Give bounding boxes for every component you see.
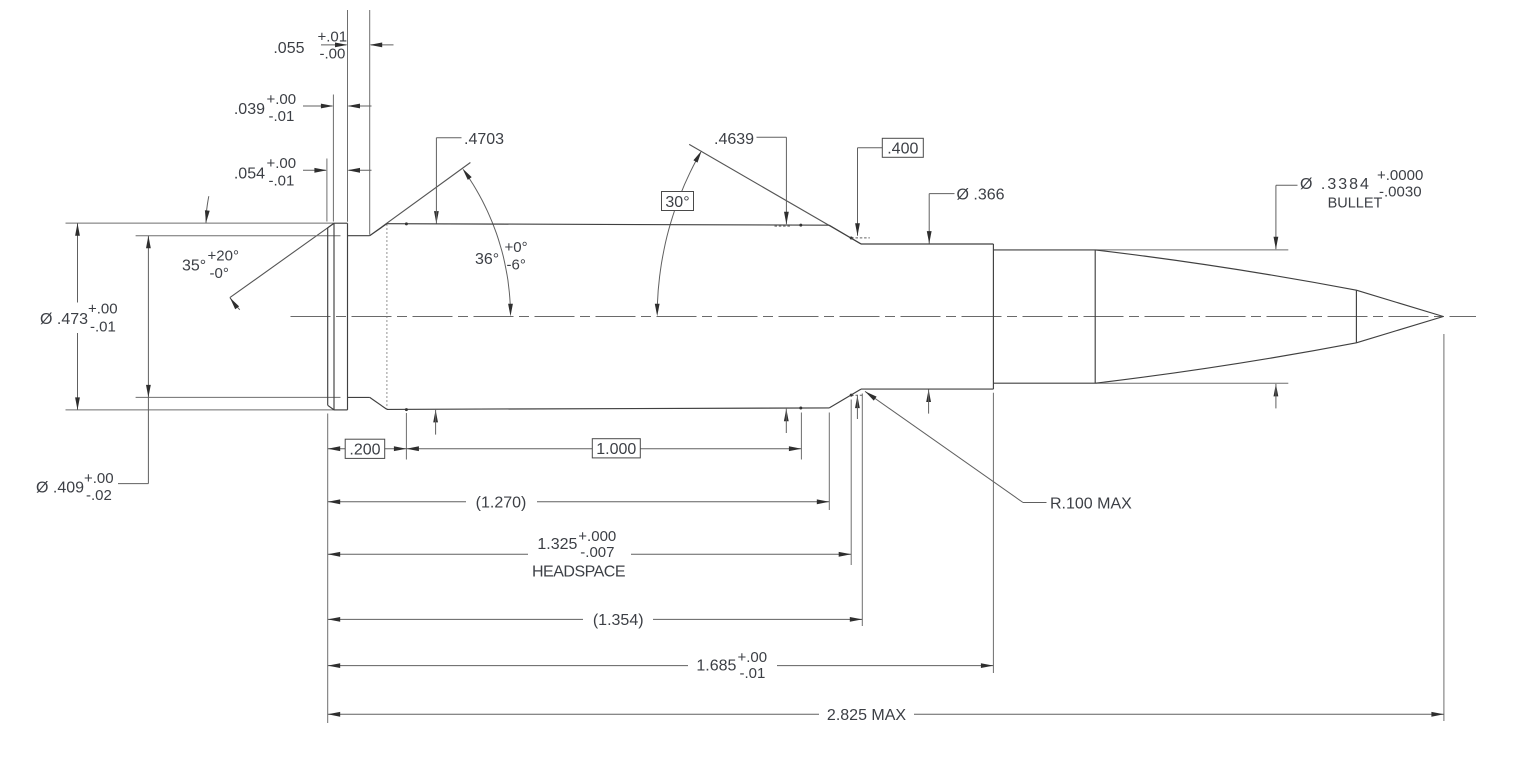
dim line 1.325 headspace — [328, 553, 852, 555]
svg-text:1.325: 1.325 — [537, 536, 577, 553]
dim .200 arrow right — [394, 446, 407, 451]
dot 1.000 point top — [799, 224, 802, 227]
stem .400 vertical — [857, 148, 859, 236]
dim line 1.000 — [406, 448, 801, 450]
leader R.100 MAX horizontal — [1023, 502, 1047, 504]
35 deg arc arrow upper — [205, 210, 210, 223]
extension line rim bottom (dia .473 lower) — [66, 409, 335, 411]
leader dia .3384 horizontal — [1276, 184, 1298, 186]
arrow .4639 bottom up — [784, 409, 789, 422]
svg-text:30°: 30° — [665, 194, 689, 211]
case body top edge — [387, 224, 829, 226]
dim .039 tail right — [349, 105, 372, 107]
dim line (1.354) — [328, 618, 863, 620]
svg-text:.4703: .4703 — [464, 131, 504, 148]
rim top edge — [334, 222, 348, 224]
30 deg shoulder construction line extended — [689, 144, 861, 244]
bullet tip cone lower — [1356, 317, 1443, 343]
case body bottom edge — [387, 408, 829, 410]
dim 1.325 arrow left — [328, 552, 341, 557]
35 deg arc arrow lower — [230, 298, 239, 310]
shoulder top 30deg — [829, 225, 861, 244]
extension line bullet tip down — [1443, 334, 1445, 721]
dot .200 point bottom — [405, 408, 408, 411]
tick .400 level upper — [851, 237, 870, 239]
neck top edge — [861, 243, 993, 245]
svg-text:.4639: .4639 — [714, 131, 754, 148]
svg-text:Ø .473: Ø .473 — [40, 311, 88, 328]
dot .200 point top — [405, 222, 408, 225]
dim .039 arrow left — [321, 104, 334, 109]
svg-text:+.00: +.00 — [84, 470, 114, 487]
leader .4639 horizontal — [757, 136, 787, 138]
svg-text:-.0030: -.0030 — [1379, 184, 1422, 201]
extension line groove top (dia .409 upper) — [136, 235, 341, 237]
dim .055 arrow left — [335, 43, 348, 48]
dim .054 arrow left — [314, 168, 327, 173]
svg-text:+0°: +0° — [505, 239, 528, 256]
dim (1.270) arrow right — [817, 499, 830, 504]
35 deg rim bevel construction line — [230, 223, 334, 297]
svg-text:-.00: -.00 — [320, 46, 346, 63]
svg-text:+.01: +.01 — [318, 29, 348, 46]
bullet ogive lower — [1095, 343, 1356, 383]
dim line .200 — [328, 448, 407, 450]
leader .4703 horizontal — [436, 137, 461, 139]
text knockout (1.354) — [583, 609, 653, 631]
stem .4703 down-arrow — [435, 211, 437, 224]
svg-text:(1.270): (1.270) — [476, 495, 527, 512]
36 deg arc arrow upper — [462, 168, 471, 180]
svg-text:36°: 36° — [475, 251, 499, 268]
dim .054 tail right — [349, 169, 372, 171]
arrow .4703 down — [434, 211, 439, 224]
dim .055 tail right — [371, 44, 394, 46]
text knockout (1.270) — [466, 492, 537, 512]
30 deg arc arrow upper — [693, 151, 701, 163]
dim 2.825 arrow right — [1431, 712, 1444, 717]
dim .054 leader left — [303, 169, 326, 171]
dim .055 arrow right — [370, 43, 383, 48]
dim 1.685 arrow right — [981, 663, 994, 668]
boxed dim 1.000 — [592, 439, 640, 458]
dia .473 arrow down — [75, 397, 80, 410]
svg-text:-.01: -.01 — [269, 108, 295, 125]
dim line dia .409 vertical — [147, 236, 149, 484]
dim 2.825 arrow left — [328, 712, 341, 717]
leader dia .366 horizontal — [929, 193, 954, 195]
extension line case mouth down — [992, 393, 994, 673]
svg-text:BULLET: BULLET — [1328, 196, 1383, 212]
extractor groove bottom — [348, 396, 370, 398]
dot .400 on shoulder upper — [850, 237, 853, 240]
leader R.100 MAX diagonal — [865, 391, 1023, 502]
bullet cylinder bottom — [993, 382, 1095, 384]
rim rear face — [347, 223, 349, 410]
arrow .4703 bottom up — [433, 410, 438, 423]
dot .400 on shoulder lower — [850, 394, 853, 397]
arrow dia .3384 bottom up — [1274, 384, 1279, 397]
bullet cylinder top — [993, 249, 1095, 251]
bullet tip cone upper — [1356, 290, 1443, 316]
bullet ogive upper — [1095, 250, 1356, 290]
bullet tip cone junction — [1355, 290, 1357, 343]
boxed dim .400 — [882, 138, 923, 157]
dim 1.685 arrow left — [328, 663, 341, 668]
rim bottom edge — [334, 409, 348, 411]
arrow .400 bottom up — [855, 396, 860, 409]
extension line groove bottom (dia .409 lower) — [136, 396, 341, 398]
rim bevel edge vertical — [333, 223, 335, 410]
stem .4703 bottom — [435, 410, 437, 435]
arrow R.100 MAX — [865, 391, 877, 400]
arrow .4639 down — [784, 212, 789, 225]
svg-text:.039: .039 — [234, 101, 265, 118]
extension line neck junction down — [861, 394, 863, 627]
svg-text:1.685: 1.685 — [696, 658, 736, 675]
extractor groove top — [348, 235, 370, 237]
svg-text:(1.354): (1.354) — [593, 612, 644, 629]
stem dia .366 vertical — [928, 194, 930, 244]
extension line head face up (.054) — [326, 159, 328, 222]
text knockout 1.685 — [688, 648, 777, 682]
svg-text:.400: .400 — [887, 141, 918, 158]
svg-text:2.825 MAX: 2.825 MAX — [827, 707, 906, 724]
dim .055 leader left — [321, 44, 347, 46]
dim line 1.685 — [328, 665, 994, 667]
arrow dia .366 bottom up — [926, 390, 931, 403]
svg-text:-6°: -6° — [507, 257, 526, 274]
dim 1.000 arrow right — [789, 446, 802, 451]
extension line rim top (dia .473 upper) — [66, 222, 335, 224]
stem dia .3384 vertical — [1275, 185, 1277, 249]
dim line (1.270) — [328, 501, 830, 503]
dim .054 arrow right — [348, 168, 361, 173]
dia .409 arrow down — [146, 385, 151, 398]
boxed dim .200 — [345, 439, 385, 458]
extension line shoulder start down — [828, 413, 830, 511]
svg-text:+.00: +.00 — [267, 91, 297, 108]
neck bottom edge — [861, 388, 993, 390]
36 deg angle arc — [467, 175, 511, 310]
extension line 1.000 point down — [800, 413, 802, 460]
36 deg arc arrow lower — [508, 304, 513, 317]
svg-text:35°: 35° — [182, 258, 206, 275]
svg-text:-.01: -.01 — [90, 318, 116, 335]
dim line dia .473 vertical lower segment — [77, 333, 79, 410]
bullet ogive junction line — [1094, 250, 1096, 383]
svg-text:+.00: +.00 — [88, 301, 118, 318]
leader .400 horizontal — [858, 147, 883, 149]
case mouth face — [992, 244, 994, 389]
dim line 2.825 max — [328, 713, 1444, 715]
35 deg arc tail upper — [206, 196, 209, 223]
dia .473 arrow up — [75, 223, 80, 236]
groove cone lower 36deg — [370, 397, 387, 409]
svg-text:.055: .055 — [273, 40, 304, 57]
text knockout 1.325 — [528, 524, 631, 559]
leader dia .409 — [118, 483, 148, 485]
svg-text:Ø .409: Ø .409 — [36, 480, 84, 497]
shoulder bottom 30deg — [829, 389, 861, 408]
svg-text:-.01: -.01 — [740, 665, 766, 682]
dim (1.270) arrow left — [328, 499, 341, 504]
svg-text:.054: .054 — [234, 165, 265, 182]
dim (1.354) arrow left — [328, 617, 341, 622]
30 deg angle arc — [657, 154, 699, 311]
stem dia .3384 bottom — [1275, 384, 1277, 409]
arrow dia .366 down — [927, 231, 932, 244]
svg-text:Ø .366: Ø .366 — [957, 187, 1005, 204]
phantom line at case body base — [386, 224, 388, 409]
tick .400 level lower — [851, 394, 863, 396]
svg-text:-.01: -.01 — [269, 172, 295, 189]
svg-text:+.0000: +.0000 — [1377, 167, 1423, 184]
groove cone upper 36deg — [370, 224, 387, 236]
dot 1.000 point bottom — [799, 407, 802, 410]
boxed dim 30 deg — [662, 192, 694, 211]
leader .4703 vertical — [435, 138, 437, 211]
extension line bullet bottom right (dia .3384) — [1095, 382, 1288, 384]
extension line bullet top right (dia .3384) — [1095, 249, 1288, 251]
stem dia .366 bottom — [928, 390, 930, 414]
rim bottom bevel — [328, 405, 334, 410]
dim .039 arrow right — [348, 104, 361, 109]
centerline of cartridge axis — [291, 316, 1477, 318]
stem .4639 vertical — [785, 137, 787, 224]
svg-text:1.000: 1.000 — [596, 441, 636, 458]
svg-text:-0°: -0° — [210, 265, 229, 282]
extension line rim rear face up (.055 left) — [347, 10, 349, 222]
svg-text:-.02: -.02 — [86, 487, 112, 504]
svg-text:+.00: +.00 — [738, 649, 768, 666]
extension line groove rear up (.055 right) — [369, 10, 371, 235]
dim (1.354) arrow right — [850, 617, 863, 622]
svg-text:.200: .200 — [349, 442, 380, 459]
arrow dia .3384 down — [1274, 237, 1279, 250]
dim .200 arrow left — [328, 446, 341, 451]
svg-text:+20°: +20° — [208, 248, 239, 265]
dim 1.325 arrow right — [839, 552, 852, 557]
tick .4639 level — [775, 225, 792, 227]
case head face (rim left) — [327, 228, 329, 405]
stem .400 bottom — [856, 396, 858, 419]
dim line dia .473 vertical upper segment — [77, 223, 79, 302]
35 deg arc tail lower — [230, 298, 240, 310]
extension line .200 point down — [405, 413, 407, 460]
rim top bevel — [328, 223, 334, 228]
arrow .400 down — [855, 223, 860, 236]
extension line datum head face down — [327, 414, 329, 724]
36 deg cone construction line extended — [370, 163, 471, 236]
stem .4639 bottom — [785, 409, 787, 433]
dia .409 arrow up — [146, 236, 151, 249]
dim 1.000 arrow left — [406, 446, 419, 451]
svg-text:HEADSPACE: HEADSPACE — [532, 564, 625, 581]
svg-text:R.100 MAX: R.100 MAX — [1050, 496, 1132, 513]
text knockout 2.825 MAX — [819, 704, 914, 725]
svg-text:+.000: +.000 — [578, 528, 616, 545]
30 deg arc arrow lower — [655, 304, 660, 317]
svg-text:-.007: -.007 — [580, 544, 614, 561]
extension line rim bevel up (.039) — [332, 95, 334, 222]
dim .039 leader left — [303, 105, 332, 107]
extension line headspace .400 point down — [850, 400, 852, 566]
svg-text:Ø .3384: Ø .3384 — [1300, 176, 1371, 193]
svg-text:+.00: +.00 — [267, 155, 297, 172]
